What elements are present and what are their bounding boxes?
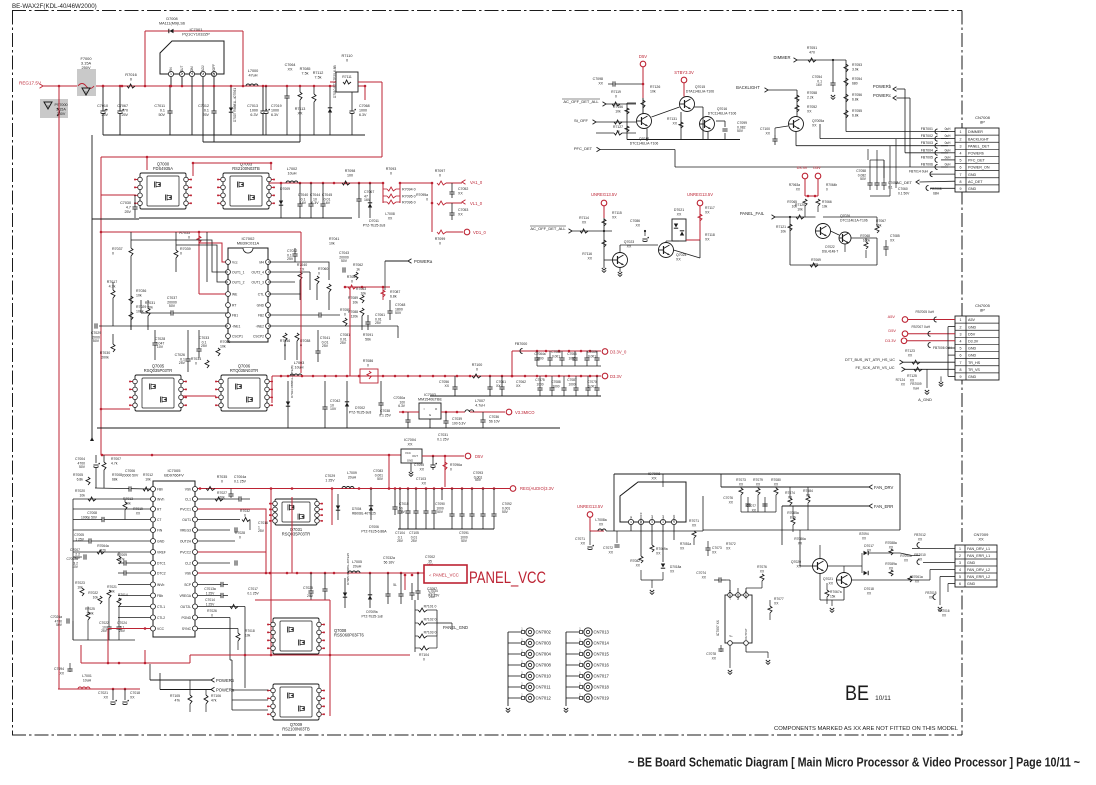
svg-text:PTZ-TE25-1u8: PTZ-TE25-1u8 [361,615,382,619]
svg-text:R7069a: R7069a [656,547,668,551]
svg-text:R7052: R7052 [807,105,817,109]
svg-text:50V: 50V [169,304,176,308]
svg-text:R7021: R7021 [107,585,117,589]
svg-text:D3.3V: D3.3V [885,338,896,343]
svg-text:25V: 25V [287,257,294,261]
svg-text:FAN_DRV: FAN_DRV [874,485,893,490]
svg-text:C ADJ: C ADJ [201,65,205,74]
svg-text:R7124: R7124 [896,378,906,382]
svg-text:R7009: R7009 [117,553,127,557]
svg-text:R7053: R7053 [852,63,862,67]
svg-text:R7008: R7008 [112,473,122,477]
svg-text:R7030: R7030 [100,351,110,355]
svg-text:FB7006: FB7006 [921,163,933,167]
svg-text:10k: 10k [797,208,803,212]
svg-text:FB7004: FB7004 [921,148,933,152]
svg-text:C7060: C7060 [898,187,908,191]
svg-text:C7013: C7013 [247,104,258,108]
svg-text:XX: XX [807,110,812,114]
svg-text:FB7014 0uH: FB7014 0uH [909,170,929,174]
svg-text:R7056: R7056 [852,93,862,97]
svg-text:C7081: C7081 [340,333,350,337]
svg-text:C7015: C7015 [399,502,409,506]
svg-text:R7096 0: R7096 0 [402,201,416,205]
svg-text:R7035: R7035 [217,475,228,479]
svg-text:R7080: R7080 [771,478,781,482]
svg-text:0.1: 0.1 [204,109,209,113]
svg-text:1000: 1000 [359,109,367,113]
svg-text:R7027: R7027 [217,491,227,495]
svg-text:L7008: L7008 [385,212,395,216]
svg-text:VSh: VSh [185,487,191,491]
svg-text:20uH: 20uH [348,476,357,480]
svg-text:R7063: R7063 [356,287,366,291]
svg-text:R7102 0: R7102 0 [424,618,437,622]
svg-text:STBY3.3V: STBY3.3V [674,70,694,75]
svg-text:10V: 10V [399,510,406,514]
svg-text:St_OFF: St_OFF [574,118,589,123]
svg-text:Q7026: Q7026 [840,214,850,218]
svg-text:1 25V: 1 25V [325,479,335,483]
svg-text:XX: XX [421,482,426,486]
svg-text:RS2100N03TB: RS2100N03TB [282,727,310,732]
svg-text:680: 680 [852,82,858,86]
svg-text:3: 3 [959,561,961,565]
svg-text:25V: 25V [101,113,108,117]
svg-text:1000: 1000 [536,357,543,361]
svg-text:FB7000: FB7000 [515,342,528,346]
svg-text:0uH: 0uH [945,127,952,131]
svg-text:47k: 47k [211,699,217,703]
svg-text:M4: M4 [259,260,264,264]
svg-text:D3.3V_0: D3.3V_0 [610,350,627,355]
svg-text:0.1 25V: 0.1 25V [247,592,259,596]
svg-text:10k: 10k [615,110,621,114]
svg-text:XX: XX [705,211,710,215]
svg-text:R7067a: R7067a [830,590,842,594]
svg-text:0.1: 0.1 [160,109,165,113]
svg-text:R7100: R7100 [472,363,483,367]
svg-text:250V: 250V [81,65,90,70]
svg-text:47: 47 [104,109,108,113]
svg-text:D7006: D7006 [369,525,379,529]
svg-text:0uH: 0uH [945,134,952,138]
svg-text:PANEL_DET: PANEL_DET [968,144,990,148]
svg-text:56k: 56k [365,338,371,342]
svg-text:0.001: 0.001 [552,355,560,359]
svg-text:OUT1_3: OUT1_3 [252,280,265,284]
svg-text:R7058: R7058 [807,91,817,95]
svg-text:R7126: R7126 [650,85,660,89]
svg-text:XX: XX [444,384,449,388]
svg-text:7: 7 [960,361,962,365]
svg-text:R7101 0: R7101 0 [424,605,437,609]
svg-text:D5V: D5V [475,454,483,459]
svg-text:GND: GND [257,303,265,307]
svg-text:50V: 50V [860,177,867,181]
svg-text:15k: 15k [830,595,836,599]
svg-text:0uH: 0uH [945,163,952,167]
svg-text:10uH: 10uH [294,366,303,370]
svg-text:R7069: R7069 [811,258,821,262]
svg-text:VREG3: VREG3 [180,528,191,532]
svg-text:XX: XX [677,213,682,217]
svg-text:R7085: R7085 [300,67,311,71]
svg-text:REG17.5V: REG17.5V [19,81,42,86]
svg-text:R7065: R7065 [787,200,797,204]
svg-text:10uH: 10uH [83,679,92,683]
svg-text:C7085: C7085 [890,234,900,238]
svg-text:R7103 0: R7103 0 [424,631,437,635]
svg-text:AC_DET: AC_DET [968,180,983,184]
svg-text:INVb: INVb [157,583,164,587]
svg-text:GND: GND [157,539,165,543]
svg-text:MB39C011A: MB39C011A [237,241,260,246]
svg-text:120k: 120k [351,315,359,319]
svg-text:6.3V: 6.3V [250,113,258,117]
svg-text:C7088: C7088 [551,380,561,384]
svg-text:R7105: R7105 [170,694,180,698]
svg-text:R7005: R7005 [73,473,83,477]
svg-text:GND: GND [968,375,977,379]
svg-text:10k: 10k [93,596,99,600]
svg-text:R7110: R7110 [342,54,353,58]
svg-text:0: 0 [195,362,197,366]
svg-text:ON/OFF: ON/OFF [212,64,216,76]
svg-text:R7088: R7088 [348,310,358,314]
svg-text:C7061: C7061 [375,313,385,317]
svg-text:5: 5 [959,575,961,579]
svg-text:FAN_DRV_L2: FAN_DRV_L2 [967,568,990,572]
svg-text:68H: 68H [933,192,940,196]
svg-text:FB7005: FB7005 [921,155,933,159]
svg-text:R7114: R7114 [579,216,589,220]
svg-text:XX: XX [676,258,681,262]
svg-text:CN7019: CN7019 [594,696,610,701]
svg-text:D7011: D7011 [369,219,379,223]
svg-text:XX: XX [103,696,108,700]
svg-text:1: 1 [960,130,962,134]
svg-text:OUT1_1: OUT1_1 [232,270,245,274]
svg-text:50V: 50V [737,129,744,133]
svg-text:XX: XX [651,476,657,481]
svg-text:R7013: R7013 [123,497,133,501]
svg-text:R7118: R7118 [705,233,715,237]
svg-text:0.1: 0.1 [888,186,893,190]
svg-text:1000p 50V: 1000p 50V [81,516,98,520]
svg-text:R7026: R7026 [207,609,217,613]
svg-text:C7008: C7008 [87,511,97,515]
svg-text:FB7002: FB7002 [921,134,933,138]
svg-text:R7079: R7079 [753,478,763,482]
svg-text:XX: XX [298,112,303,116]
svg-text:6.8k: 6.8k [390,295,397,299]
svg-text:DTC114ELIA-T106: DTC114ELIA-T106 [630,142,659,146]
svg-text:Q7021: Q7021 [823,577,833,581]
svg-text:XX: XX [388,217,393,221]
svg-text:C7065: C7065 [551,350,561,354]
svg-text:L7003: L7003 [294,361,305,365]
svg-text:DTC114ELIA-T106: DTC114ELIA-T106 [708,112,737,116]
svg-text:!: ! [47,104,48,109]
svg-text:XX: XX [587,257,592,261]
svg-text:4: 4 [960,151,962,155]
svg-text:C7064: C7064 [285,63,296,67]
svg-text:CN7017: CN7017 [594,674,610,679]
svg-text:3.9k: 3.9k [852,68,859,72]
svg-text:D7018a: D7018a [670,565,681,569]
svg-text:C7036: C7036 [489,415,499,419]
svg-text:RSS060P03FT6: RSS060P03FT6 [334,633,365,638]
svg-text:BACKLIGHT: BACKLIGHT [968,137,990,141]
svg-text:L7002: L7002 [287,167,298,171]
svg-text:R7036: R7036 [136,289,146,293]
svg-text:R7072: R7072 [726,542,736,546]
svg-text:C7103: C7103 [416,477,426,481]
svg-text:R7064a: R7064a [97,544,109,548]
svg-text:GND: GND [968,187,977,191]
svg-text:C7041: C7041 [320,336,330,340]
svg-text:R7091: R7091 [363,333,373,337]
svg-text:~ BE Board Schematic Diagram [: ~ BE Board Schematic Diagram [ Main Micr… [628,755,1080,770]
svg-text:VCC: VCC [405,451,411,455]
svg-text:470: 470 [809,51,815,55]
svg-text:PFC_DET: PFC_DET [968,159,986,163]
svg-text:8P: 8P [980,120,985,125]
svg-text:6.8k: 6.8k [852,114,859,118]
svg-text:CN7014: CN7014 [594,641,610,646]
svg-text:DIMMER: DIMMER [774,55,791,60]
svg-text:XX: XX [978,537,984,542]
svg-text:8: 8 [960,180,962,184]
svg-text:OUTPUT: OUTPUT [744,628,748,640]
svg-text:0: 0 [346,59,348,63]
svg-text:R7088a: R7088a [885,541,897,545]
svg-text:OUT1: OUT1 [182,518,191,522]
svg-text:R7051: R7051 [807,46,817,50]
svg-text:R7068: R7068 [860,234,870,238]
svg-text:25V: 25V [201,344,208,348]
svg-text:10k: 10k [77,586,83,590]
svg-text:Vout: Vout [650,515,654,521]
svg-text:6.3V: 6.3V [398,404,406,408]
svg-text:A5V: A5V [888,314,896,319]
svg-text:A_GND: A_GND [918,397,932,402]
svg-text:47k: 47k [175,699,181,703]
svg-text:9: 9 [960,187,962,191]
svg-text:470: 470 [122,109,128,113]
svg-text:C7004: C7004 [75,457,85,461]
svg-text:DTC1: DTC1 [157,561,166,565]
svg-text:FAN_ERR_L1: FAN_ERR_L1 [967,554,990,558]
svg-text:25V: 25V [322,344,329,348]
svg-text:C7039: C7039 [452,417,462,421]
svg-text:R7076: R7076 [757,565,767,569]
svg-text:R7067: R7067 [876,219,886,223]
svg-text:D3.3V: D3.3V [610,374,622,379]
svg-text:25V: 25V [340,341,347,345]
svg-text:OUT: OUT [412,454,418,458]
svg-text:C7002: C7002 [425,555,435,559]
svg-text:FAN_ERR_L2: FAN_ERR_L2 [967,575,990,579]
svg-text:Vout: Vout [661,515,665,521]
svg-text:Q7015: Q7015 [695,85,705,89]
svg-text:IC7004: IC7004 [404,438,416,442]
svg-text:DTC114E1A-T106: DTC114E1A-T106 [840,219,868,223]
svg-text:CSCP2: CSCP2 [253,334,264,338]
svg-text:0: 0 [211,614,213,618]
svg-text:C7004a: C7004a [234,475,246,479]
svg-text:R7111: R7111 [342,75,352,79]
svg-text:R7033: R7033 [179,231,190,235]
svg-text:C7072: C7072 [603,546,613,550]
svg-text:10k: 10k [245,634,251,638]
svg-text:0uH: 0uH [913,387,920,391]
svg-text:FB7001: FB7001 [921,127,933,131]
svg-text:Q7016: Q7016 [717,107,727,111]
svg-text:C7026a: C7026a [50,615,62,619]
svg-text:R7121: R7121 [776,225,786,229]
svg-text:UNREG13.5V: UNREG13.5V [577,504,603,509]
svg-text:C7016: C7016 [258,521,268,525]
svg-text:10k: 10k [80,494,86,498]
svg-text:C7033: C7033 [199,336,209,340]
svg-text:PTZ-TE25-6.8BA: PTZ-TE25-6.8BA [361,530,387,534]
svg-text:0: 0 [426,198,428,202]
svg-text:CN7011: CN7011 [536,685,552,690]
svg-text:FE_SCK_ATR_VS_UC: FE_SCK_ATR_VS_UC [856,366,895,370]
svg-text:C7018: C7018 [130,691,140,695]
svg-text:R7022: R7022 [88,591,98,595]
svg-text:XX: XX [458,192,463,196]
svg-text:XX: XX [612,216,617,220]
svg-text:4.7: 4.7 [126,206,131,210]
svg-text:XX: XX [516,384,521,388]
svg-text:FB7008: FB7008 [930,187,941,191]
svg-text:6: 6 [959,582,961,586]
svg-text:R7077: R7077 [774,597,784,601]
svg-text:0: 0 [476,368,478,372]
svg-text:D7008: D7008 [166,17,177,21]
svg-text:R7119: R7119 [611,90,621,94]
svg-text:68k: 68k [112,478,118,482]
svg-text:BACKLIGHT: BACKLIGHT [736,85,760,90]
svg-text:R7060: R7060 [318,267,328,271]
svg-text:PANEL_VCC: PANEL_VCC [433,573,459,578]
svg-text:XX: XX [419,468,424,472]
svg-text:CN7018: CN7018 [594,685,610,690]
svg-text:C7025: C7025 [303,586,313,590]
svg-text:0: 0 [367,364,369,368]
svg-text:25V: 25V [124,210,131,214]
svg-text:R7095 0: R7095 0 [402,195,416,199]
svg-text:FAN_ERR: FAN_ERR [874,504,893,509]
svg-text:4: 4 [960,339,962,343]
svg-text:FB7010: FB7010 [914,553,926,557]
svg-text:DIMMER: DIMMER [968,130,983,134]
svg-text:PANEL_FAIL: PANEL_FAIL [740,211,765,216]
svg-text:L7007: L7007 [475,399,485,403]
svg-text:D7005 RB068L-40TE25: D7005 RB068L-40TE25 [346,553,350,585]
svg-text:9: 9 [960,375,962,379]
svg-text:C7029: C7029 [325,474,335,478]
svg-text:0: 0 [180,252,182,256]
svg-text:XX: XX [582,221,587,225]
svg-text:DTC2: DTC2 [157,571,166,575]
svg-text:R7116: R7116 [582,252,592,256]
svg-text:OUT2L: OUT2L [180,605,191,609]
svg-text:FB7016: FB7016 [938,609,949,613]
svg-text:1 25V: 1 25V [75,538,84,542]
svg-text:FB7003: FB7003 [921,141,933,145]
svg-text:POWERc: POWERc [873,93,891,98]
svg-text:VOUT: VOUT [180,66,184,75]
svg-text:R7115: R7115 [612,211,622,215]
svg-text:MA111(M9)LS6: MA111(M9)LS6 [159,22,185,26]
svg-text:25V: 25V [101,629,108,633]
svg-text:GND: GND [967,582,976,586]
svg-text:R7018: R7018 [245,629,255,633]
svg-text:50V: 50V [502,510,509,514]
svg-text:CN7002: CN7002 [536,630,552,635]
svg-text:0uH: 0uH [945,141,952,145]
svg-text:R7039: R7039 [180,247,191,251]
svg-text:C7104: C7104 [395,531,405,535]
svg-text:R7097: R7097 [435,169,446,173]
svg-text:16V: 16V [816,83,823,87]
svg-text:25V: 25V [375,321,382,325]
svg-text:C7021: C7021 [98,691,108,695]
svg-text:RB068L-40TE25: RB068L-40TE25 [352,512,376,516]
svg-text:R7073: R7073 [736,478,746,482]
svg-text:GND: GND [968,325,977,329]
svg-text:R7061a: R7061a [911,575,923,579]
svg-text:C7040: C7040 [298,193,308,197]
svg-text:L7005: L7005 [352,560,362,564]
svg-text:C7073: C7073 [712,546,722,550]
svg-text:C7024: C7024 [117,621,127,625]
svg-text:R7096a: R7096a [450,463,462,467]
svg-text:FBh: FBh [157,487,163,491]
svg-text:POWERa: POWERa [414,259,433,264]
svg-text:OUT1_2: OUT1_2 [232,280,245,284]
svg-text:10V: 10V [157,345,164,349]
svg-text:XX: XX [458,213,463,217]
svg-text:C7098: C7098 [593,77,603,81]
svg-text:0: 0 [344,313,346,317]
svg-text:R7099: R7099 [435,237,446,241]
svg-text:4.7k: 4.7k [109,285,116,289]
svg-text:RT: RT [157,507,161,511]
svg-text:D5V: D5V [968,332,976,336]
svg-text:0.001: 0.001 [588,355,596,359]
svg-text:1000: 1000 [568,383,575,387]
svg-text:7.5k: 7.5k [302,72,309,76]
svg-text:20000 50V: 20000 50V [122,474,139,478]
svg-text:C7105: C7105 [409,531,419,535]
svg-text:C7071: C7071 [575,537,585,541]
svg-text:XX: XX [796,565,801,569]
svg-text:10k: 10k [145,478,151,482]
svg-text:50V: 50V [79,465,86,469]
svg-text:XX: XX [692,524,697,528]
svg-text:1k: 1k [356,268,360,272]
svg-text:0: 0 [826,188,828,192]
svg-text:RS2100N03TB: RS2100N03TB [232,166,260,171]
svg-text:25V: 25V [429,595,436,599]
svg-text:CL1: CL1 [185,497,191,501]
svg-text:R7019: R7019 [133,507,143,511]
